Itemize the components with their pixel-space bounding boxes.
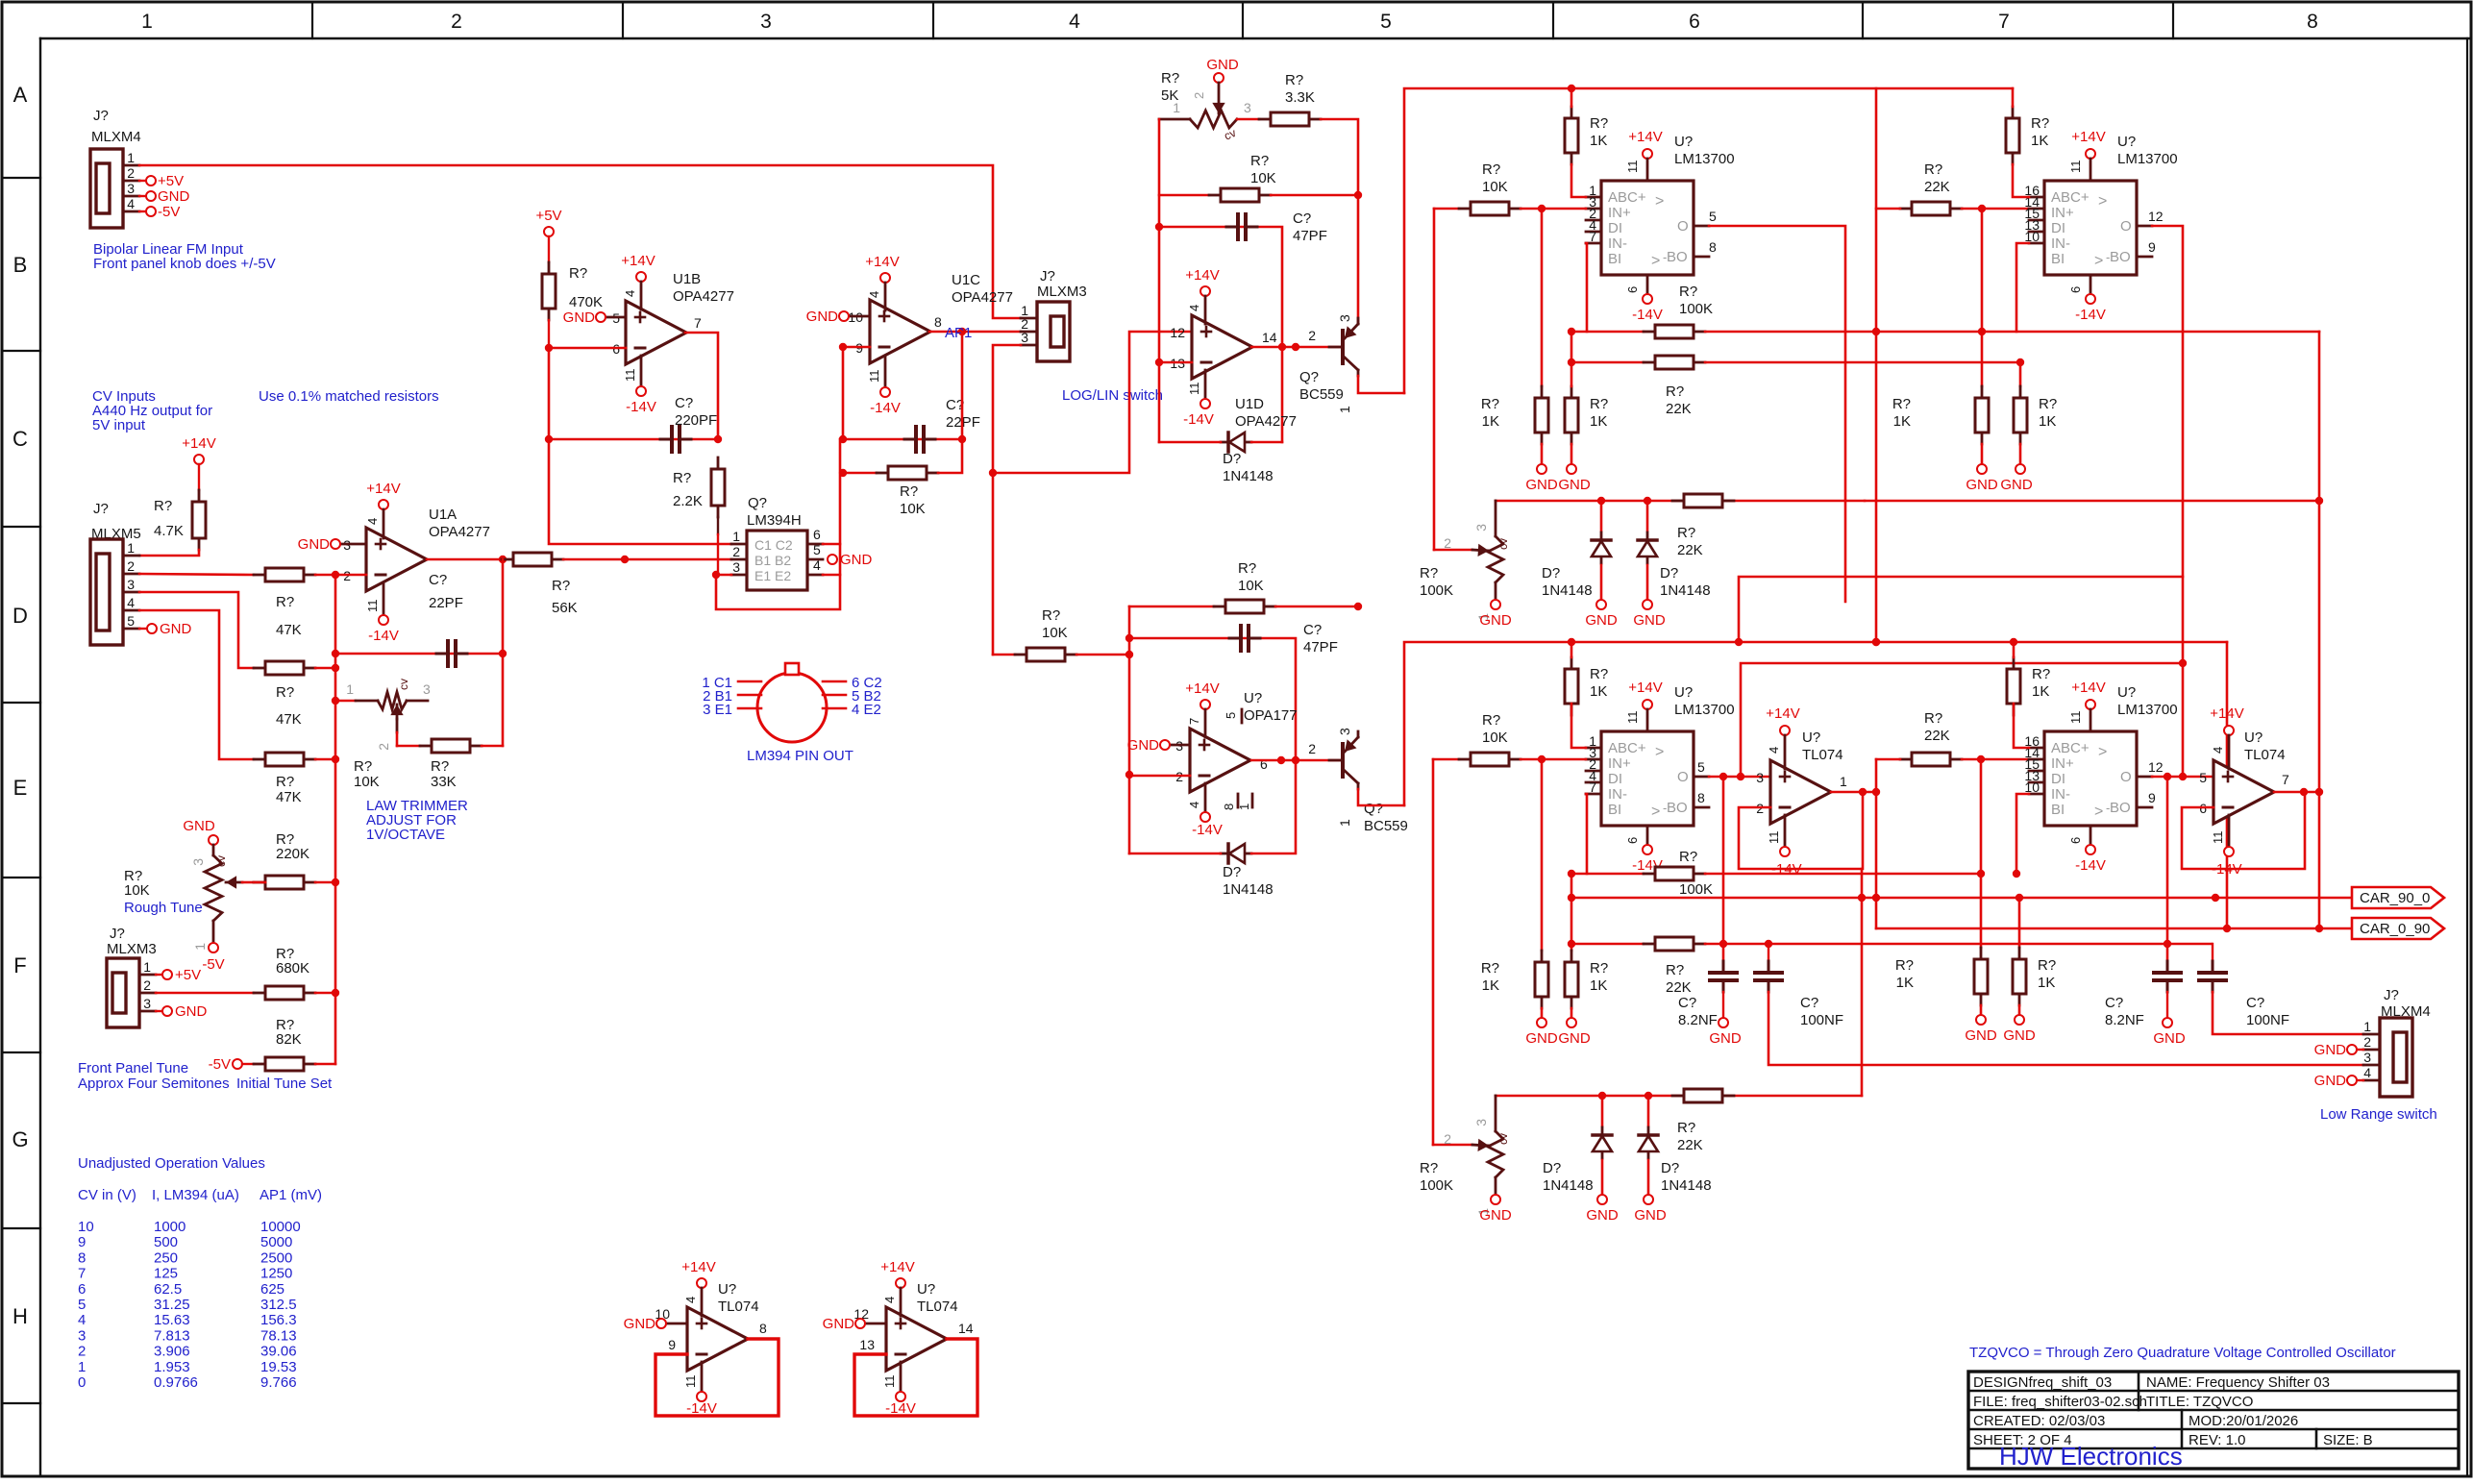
svg-text:5: 5	[1224, 712, 1238, 719]
svg-text:3: 3	[78, 1327, 86, 1344]
svg-text:GND: GND	[1585, 612, 1618, 629]
svg-text:3.906: 3.906	[154, 1344, 190, 1360]
svg-text:IN-: IN-	[1608, 786, 1627, 803]
svg-text:E: E	[13, 776, 28, 800]
svg-text:+14V: +14V	[1628, 129, 1662, 145]
svg-text:4: 4	[867, 291, 881, 298]
svg-text:A: A	[13, 83, 28, 107]
svg-text:1V/OCTAVE: 1V/OCTAVE	[366, 827, 445, 843]
svg-text:LM13700: LM13700	[1674, 702, 1735, 718]
svg-text:22K: 22K	[1666, 979, 1692, 996]
svg-text:D?: D?	[1660, 565, 1678, 581]
svg-text:-14V: -14V	[870, 400, 901, 416]
svg-text:4: 4	[127, 595, 135, 610]
svg-text:3: 3	[423, 681, 431, 697]
svg-text:BO: BO	[1667, 800, 1688, 816]
svg-text:10K: 10K	[1250, 170, 1276, 186]
svg-text:OPA4277: OPA4277	[952, 289, 1013, 306]
svg-text:R?: R?	[1042, 607, 1060, 624]
svg-text:LM394 PIN OUT: LM394 PIN OUT	[747, 748, 853, 764]
svg-text:GND: GND	[1634, 1207, 1667, 1224]
svg-text:BO: BO	[2110, 800, 2131, 816]
svg-text:2: 2	[451, 11, 462, 33]
svg-text:R?: R?	[1285, 72, 1303, 88]
svg-text:8: 8	[2307, 11, 2318, 33]
svg-text:GND: GND	[183, 818, 215, 834]
svg-text:R?: R?	[1924, 161, 1942, 178]
svg-text:-5V: -5V	[158, 204, 180, 220]
svg-text:4: 4	[683, 1297, 698, 1303]
svg-text:D: D	[12, 604, 28, 628]
svg-text:1: 1	[1337, 819, 1352, 827]
svg-text:TZQVCO = Through Zero Quadratu: TZQVCO = Through Zero Quadrature Voltage…	[1969, 1345, 2396, 1361]
svg-text:1K: 1K	[2038, 975, 2055, 991]
svg-text:D?: D?	[1223, 451, 1241, 467]
svg-text:6: 6	[1625, 837, 1640, 844]
svg-text:GND: GND	[624, 1316, 656, 1332]
svg-text:1: 1	[192, 943, 208, 951]
svg-text:GND: GND	[2153, 1030, 2186, 1047]
svg-text:2: 2	[127, 558, 135, 574]
svg-text:2: 2	[1444, 535, 1451, 551]
svg-text:9: 9	[2148, 239, 2156, 255]
svg-text:R?: R?	[1892, 396, 1911, 412]
svg-text:9: 9	[2148, 790, 2156, 805]
svg-text:11: 11	[2068, 711, 2083, 725]
svg-text:625: 625	[260, 1281, 284, 1298]
svg-text:R?: R?	[569, 265, 587, 282]
svg-text:8: 8	[1697, 790, 1705, 805]
svg-text:1.953: 1.953	[154, 1359, 190, 1375]
svg-text:R?: R?	[1420, 565, 1438, 581]
svg-text:156.3: 156.3	[260, 1312, 297, 1328]
svg-text:4: 4	[78, 1312, 86, 1328]
svg-text:11: 11	[365, 600, 380, 613]
svg-text:J?: J?	[1040, 268, 1055, 284]
svg-text:Unadjusted Operation Values: Unadjusted Operation Values	[78, 1155, 265, 1172]
svg-text:GND: GND	[2003, 1027, 2036, 1044]
svg-text:1: 1	[1840, 774, 1847, 789]
svg-text:3: 3	[1244, 100, 1251, 115]
svg-text:5: 5	[127, 613, 135, 629]
svg-text:22K: 22K	[1924, 728, 1950, 744]
svg-text:B: B	[13, 253, 28, 277]
svg-text:R?: R?	[1924, 710, 1942, 727]
svg-text:GND: GND	[1633, 612, 1666, 629]
svg-text:Initial Tune Set: Initial Tune Set	[236, 1076, 333, 1092]
svg-text:IN+: IN+	[2051, 205, 2074, 221]
svg-text:6: 6	[813, 527, 821, 542]
svg-text:9: 9	[668, 1337, 676, 1352]
svg-text:FILE: freq_shifter03-02.sch: FILE: freq_shifter03-02.sch	[1973, 1394, 2147, 1410]
svg-text:11: 11	[683, 1375, 698, 1389]
svg-text:4.7K: 4.7K	[154, 523, 184, 539]
svg-text:GND: GND	[1525, 477, 1558, 493]
svg-text:1: 1	[1173, 100, 1180, 115]
svg-text:ABC+: ABC+	[2051, 189, 2090, 206]
svg-text:47K: 47K	[276, 789, 302, 805]
svg-text:U1B: U1B	[673, 271, 701, 287]
svg-text:>: >	[1655, 193, 1664, 210]
svg-text:7: 7	[2282, 772, 2289, 787]
svg-text:R?: R?	[2032, 666, 2050, 682]
svg-text:1K: 1K	[1482, 413, 1499, 430]
svg-text:5: 5	[813, 542, 821, 557]
svg-text:cv: cv	[1496, 1133, 1510, 1145]
svg-text:8.2NF: 8.2NF	[1678, 1012, 1718, 1028]
svg-text:MLXM3: MLXM3	[1037, 284, 1087, 300]
svg-text:R?: R?	[1895, 957, 1914, 974]
svg-text:U?: U?	[917, 1281, 935, 1298]
svg-text:F: F	[13, 953, 26, 977]
svg-text:R?: R?	[154, 498, 172, 514]
svg-text:11: 11	[1767, 831, 1781, 845]
svg-text:5: 5	[1697, 759, 1705, 775]
svg-text:C?: C?	[2105, 995, 2123, 1011]
svg-text:C?: C?	[1303, 622, 1322, 638]
svg-text:2: 2	[143, 977, 151, 993]
svg-text:3: 3	[143, 996, 151, 1011]
svg-text:BI: BI	[2051, 802, 2065, 818]
svg-text:100NF: 100NF	[1800, 1012, 1843, 1028]
svg-text:ABC+: ABC+	[2051, 740, 2090, 756]
svg-text:CV in (V): CV in (V)	[78, 1187, 136, 1203]
svg-text:+14V: +14V	[1185, 267, 1219, 284]
svg-text:1N4148: 1N4148	[1661, 1177, 1712, 1194]
svg-text:8.2NF: 8.2NF	[2105, 1012, 2144, 1028]
svg-text:LM13700: LM13700	[2117, 702, 2178, 718]
svg-text:11: 11	[623, 369, 637, 383]
svg-text:7: 7	[1589, 229, 1596, 244]
svg-text:10: 10	[2024, 779, 2040, 795]
svg-text:4: 4	[813, 557, 821, 573]
svg-text:470K: 470K	[569, 294, 603, 310]
svg-text:4: 4	[1069, 11, 1080, 33]
svg-text:cv: cv	[214, 855, 228, 867]
svg-text:11: 11	[867, 370, 881, 383]
svg-text:15.63: 15.63	[154, 1312, 190, 1328]
svg-text:3.3K: 3.3K	[1285, 89, 1315, 106]
svg-text:IN-: IN-	[2051, 786, 2070, 803]
svg-text:1: 1	[1337, 406, 1352, 413]
svg-text:IN-: IN-	[2051, 235, 2070, 252]
svg-text:10000: 10000	[260, 1219, 301, 1235]
svg-text:+14V: +14V	[865, 254, 899, 270]
svg-text:+5V: +5V	[158, 173, 184, 189]
svg-text:GND: GND	[2314, 1073, 2347, 1089]
svg-text:22PF: 22PF	[429, 595, 463, 611]
svg-text:D?: D?	[1661, 1160, 1679, 1176]
svg-text:7: 7	[78, 1266, 86, 1282]
svg-text:GND: GND	[1965, 1027, 1997, 1044]
svg-text:-14V: -14V	[1192, 822, 1223, 838]
svg-text:10K: 10K	[124, 882, 150, 899]
svg-text:680K: 680K	[276, 960, 309, 977]
svg-text:3: 3	[1337, 314, 1352, 322]
svg-text:2: 2	[2363, 1034, 2371, 1050]
svg-text:TL074: TL074	[2244, 747, 2286, 763]
svg-text:DESIGNfreq_shift_03: DESIGNfreq_shift_03	[1973, 1374, 2112, 1391]
svg-text:>: >	[2098, 193, 2107, 210]
svg-text:R?: R?	[2031, 115, 2049, 132]
svg-text:LOG/LIN switch: LOG/LIN switch	[1062, 387, 1163, 404]
svg-text:12: 12	[2148, 759, 2164, 775]
svg-text:J?: J?	[93, 108, 109, 124]
svg-text:5V input: 5V input	[92, 417, 146, 433]
svg-text:+14V: +14V	[182, 435, 215, 452]
svg-text:6: 6	[1689, 11, 1700, 33]
svg-text:BC559: BC559	[1364, 818, 1408, 834]
svg-text:3: 3	[1473, 1119, 1489, 1126]
svg-text:G: G	[12, 1127, 28, 1151]
svg-text:R?: R?	[276, 684, 294, 701]
svg-text:OPA177: OPA177	[1244, 707, 1298, 724]
svg-text:3: 3	[1021, 330, 1028, 345]
svg-text:5000: 5000	[260, 1234, 292, 1250]
svg-text:82K: 82K	[276, 1031, 302, 1048]
svg-text:1: 1	[127, 540, 135, 556]
svg-text:LM394H: LM394H	[747, 512, 802, 529]
svg-text:1N4148: 1N4148	[1223, 468, 1274, 484]
svg-text:J?: J?	[93, 501, 109, 517]
svg-text:10: 10	[2024, 229, 2040, 244]
svg-text:9.766: 9.766	[260, 1374, 297, 1391]
svg-text:C?: C?	[1678, 995, 1696, 1011]
svg-text:AP1 (mV): AP1 (mV)	[260, 1187, 322, 1203]
svg-text:R?: R?	[1677, 1120, 1695, 1136]
svg-text:3 E1: 3 E1	[703, 702, 732, 718]
svg-text:11: 11	[882, 1375, 897, 1389]
svg-text:7: 7	[1998, 11, 2010, 33]
svg-text:1K: 1K	[1590, 413, 1607, 430]
svg-text:Rough Tune: Rough Tune	[124, 900, 203, 916]
svg-text:-14V: -14V	[2075, 857, 2106, 874]
svg-text:3: 3	[1473, 524, 1489, 532]
svg-text:R?: R?	[1590, 115, 1608, 132]
svg-text:GND: GND	[1558, 1030, 1591, 1047]
svg-text:3: 3	[190, 858, 206, 866]
svg-text:GND: GND	[2000, 477, 2033, 493]
svg-text:-14V: -14V	[626, 399, 656, 415]
svg-text:O: O	[1677, 218, 1689, 235]
svg-text:22K: 22K	[1924, 179, 1950, 195]
svg-text:GND: GND	[1127, 737, 1160, 754]
svg-text:ABC+: ABC+	[1608, 740, 1646, 756]
svg-text:DI: DI	[1608, 771, 1622, 787]
svg-text:C?: C?	[1800, 995, 1818, 1011]
svg-text:+5V: +5V	[175, 967, 201, 983]
svg-text:U?: U?	[1244, 690, 1262, 706]
svg-text:6: 6	[1260, 756, 1268, 772]
svg-text:10K: 10K	[1482, 730, 1508, 746]
svg-text:7: 7	[1187, 718, 1201, 725]
svg-text:500: 500	[154, 1234, 178, 1250]
svg-text:DI: DI	[1608, 220, 1622, 236]
svg-text:33K: 33K	[431, 774, 457, 790]
svg-text:H: H	[12, 1304, 28, 1328]
svg-text:11: 11	[1187, 383, 1201, 396]
svg-text:U?: U?	[1674, 134, 1693, 150]
svg-text:MLXM4: MLXM4	[91, 129, 141, 145]
svg-text:GND: GND	[1966, 477, 1998, 493]
svg-text:1K: 1K	[1896, 975, 1914, 991]
svg-text:0: 0	[78, 1374, 86, 1391]
svg-text:+14V: +14V	[681, 1259, 715, 1275]
svg-text:R?: R?	[2039, 396, 2057, 412]
svg-text:GND: GND	[806, 309, 839, 325]
svg-text:3: 3	[2363, 1050, 2371, 1065]
svg-text:4 E2: 4 E2	[852, 702, 881, 718]
svg-text:220PF: 220PF	[675, 412, 717, 429]
svg-text:100K: 100K	[1679, 301, 1713, 317]
svg-text:CREATED: 02/03/03: CREATED: 02/03/03	[1973, 1413, 2105, 1429]
svg-text:TITLE: TZQVCO: TITLE: TZQVCO	[2146, 1394, 2253, 1410]
svg-text:BC559: BC559	[1299, 386, 1344, 403]
svg-text:1K: 1K	[1590, 977, 1607, 994]
svg-text:1K: 1K	[1590, 683, 1607, 700]
svg-text:+14V: +14V	[2210, 705, 2243, 722]
svg-text:56K: 56K	[552, 600, 578, 616]
svg-text:>: >	[2094, 804, 2103, 820]
svg-text:+5V: +5V	[535, 208, 561, 224]
svg-text:R?: R?	[1666, 383, 1684, 400]
svg-text:5: 5	[78, 1297, 86, 1313]
svg-text:R?: R?	[1481, 396, 1499, 412]
svg-text:1N4148: 1N4148	[1660, 582, 1711, 599]
svg-text:14: 14	[1262, 330, 1277, 345]
svg-text:R?: R?	[1590, 396, 1608, 412]
svg-text:CAR_90_0: CAR_90_0	[2360, 890, 2430, 906]
svg-text:11: 11	[2211, 831, 2225, 845]
svg-text:3: 3	[1337, 728, 1352, 735]
svg-text:1: 1	[732, 529, 740, 544]
svg-text:REV: 1.0: REV: 1.0	[2189, 1432, 2245, 1448]
svg-text:R?: R?	[276, 774, 294, 790]
svg-text:1N4148: 1N4148	[1542, 582, 1593, 599]
svg-text:1: 1	[78, 1359, 86, 1375]
svg-text:R?: R?	[1666, 962, 1684, 978]
svg-text:R?: R?	[1590, 960, 1608, 977]
svg-text:7: 7	[694, 315, 702, 331]
svg-text:2: 2	[1444, 1131, 1451, 1147]
svg-text:O: O	[2120, 769, 2132, 785]
svg-text:3: 3	[1756, 770, 1764, 785]
svg-text:2: 2	[1192, 92, 1206, 99]
svg-text:DI: DI	[2051, 771, 2065, 787]
svg-text:1N4148: 1N4148	[1543, 1177, 1594, 1194]
svg-text:R?: R?	[1238, 560, 1256, 577]
svg-text:22K: 22K	[1666, 401, 1692, 417]
svg-text:1: 1	[141, 11, 153, 33]
svg-text:SIZE: B: SIZE: B	[2323, 1432, 2373, 1448]
svg-text:4: 4	[1187, 305, 1201, 311]
svg-text:78.13: 78.13	[260, 1327, 297, 1344]
svg-text:GND: GND	[1586, 1207, 1619, 1224]
svg-text:+14V: +14V	[1185, 680, 1219, 697]
svg-text:1K: 1K	[2031, 133, 2048, 149]
svg-text:Q?: Q?	[748, 495, 767, 511]
svg-text:47K: 47K	[276, 711, 302, 728]
svg-text:6: 6	[2068, 837, 2083, 844]
svg-text:R?: R?	[1482, 712, 1500, 729]
svg-text:OPA4277: OPA4277	[429, 524, 490, 540]
svg-text:>: >	[1655, 744, 1664, 760]
svg-text:3: 3	[127, 181, 135, 196]
svg-text:GND: GND	[1206, 57, 1239, 73]
svg-text:R?: R?	[431, 758, 449, 775]
svg-text:R?: R?	[1590, 666, 1608, 682]
svg-text:10K: 10K	[900, 501, 926, 517]
svg-text:Use 0.1% matched resistors: Use 0.1% matched resistors	[259, 388, 439, 405]
svg-text:+14V: +14V	[366, 481, 400, 497]
svg-text:1K: 1K	[1893, 413, 1911, 430]
svg-text:31.25: 31.25	[154, 1297, 190, 1313]
svg-text:10K: 10K	[354, 774, 380, 790]
svg-text:Q?: Q?	[1364, 801, 1383, 817]
svg-text:4: 4	[1187, 802, 1201, 808]
svg-text:1: 1	[127, 150, 135, 165]
svg-text:62.5: 62.5	[154, 1281, 182, 1298]
svg-text:GND: GND	[563, 309, 596, 326]
svg-text:R?: R?	[2038, 957, 2056, 974]
svg-text:7.813: 7.813	[154, 1327, 190, 1344]
svg-text:GND: GND	[1479, 1207, 1512, 1224]
svg-text:I, LM394 (uA): I, LM394 (uA)	[152, 1187, 239, 1203]
svg-text:10: 10	[78, 1219, 94, 1235]
svg-text:-14V: -14V	[1183, 411, 1214, 428]
svg-text:10K: 10K	[1482, 179, 1508, 195]
svg-text:R?: R?	[1679, 284, 1697, 300]
svg-text:1K: 1K	[2039, 413, 2056, 430]
svg-text:J?: J?	[110, 926, 125, 942]
svg-text:1K: 1K	[1482, 977, 1499, 994]
svg-text:5: 5	[1709, 209, 1717, 224]
svg-text:39.06: 39.06	[260, 1344, 297, 1360]
svg-text:8: 8	[1222, 804, 1236, 810]
svg-text:U1D: U1D	[1235, 396, 1264, 412]
svg-text:R?: R?	[1420, 1160, 1438, 1176]
svg-text:8: 8	[78, 1249, 86, 1266]
svg-text:AP1: AP1	[945, 325, 972, 341]
svg-text:Approx Four Semitones: Approx Four Semitones	[78, 1076, 230, 1092]
svg-text:22K: 22K	[1677, 542, 1703, 558]
svg-text:IN-: IN-	[1608, 235, 1627, 252]
svg-text:J?: J?	[2384, 987, 2399, 1003]
svg-text:-14V: -14V	[368, 628, 399, 644]
svg-text:MLXM3: MLXM3	[107, 941, 157, 957]
svg-text:11: 11	[1625, 161, 1640, 174]
svg-text:+14V: +14V	[2071, 129, 2105, 145]
svg-text:12: 12	[1170, 325, 1185, 340]
svg-text:4: 4	[623, 290, 637, 297]
svg-text:cv: cv	[397, 679, 410, 690]
svg-text:8: 8	[934, 314, 942, 330]
svg-text:14: 14	[958, 1321, 974, 1336]
svg-text:LM13700: LM13700	[1674, 151, 1735, 167]
svg-text:22K: 22K	[1677, 1137, 1703, 1153]
svg-text:0.9766: 0.9766	[154, 1374, 198, 1391]
svg-text:LM13700: LM13700	[2117, 151, 2178, 167]
svg-text:>: >	[2094, 253, 2103, 269]
svg-text:R?: R?	[1482, 161, 1500, 178]
svg-text:OPA4277: OPA4277	[1235, 413, 1297, 430]
svg-text:-5V: -5V	[202, 956, 224, 973]
svg-text:GND: GND	[840, 552, 873, 568]
svg-text:-14V: -14V	[1632, 307, 1663, 323]
svg-text:GND: GND	[2314, 1042, 2347, 1058]
svg-text:+14V: +14V	[2071, 680, 2105, 696]
svg-text:12: 12	[2148, 209, 2164, 224]
